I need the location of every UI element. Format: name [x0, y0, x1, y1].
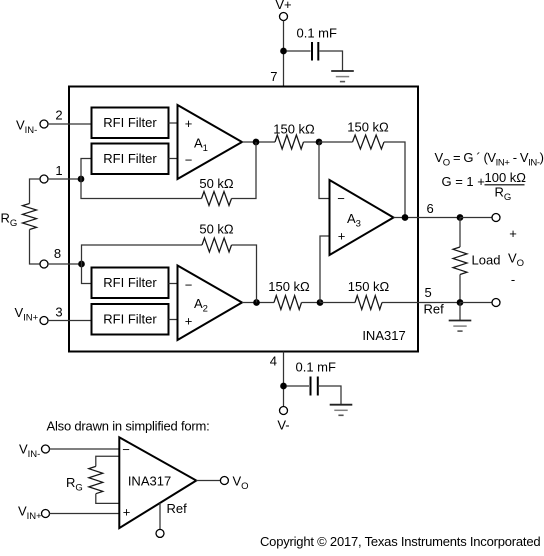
- input terminal VIN+ pin 3: [15, 305, 49, 325]
- wire pin 4: [283, 352, 285, 407]
- terminal pin 1: [40, 175, 48, 183]
- svg-text:V-: V-: [277, 418, 289, 433]
- ref terminal simplified: [156, 529, 164, 537]
- svg-text:4: 4: [270, 354, 277, 369]
- output terminal VO simplified: [220, 474, 248, 493]
- load resistor: [453, 218, 500, 303]
- wire node to R2: [82, 245, 203, 264]
- wire node to R1: [81, 179, 202, 199]
- svg-text:2: 2: [55, 108, 62, 123]
- svg-text:Also drawn in simplified form:: Also drawn in simplified form:: [47, 419, 210, 434]
- ground at C2: [330, 405, 353, 416]
- wire pin5 node to VO- terminal: [460, 302, 492, 304]
- wire output simplified: [196, 480, 220, 482]
- node V- bypass junction: [280, 383, 287, 390]
- svg-text:Load: Load: [472, 253, 501, 268]
- wire pin 1 to node: [48, 178, 81, 180]
- svg-text:5: 5: [425, 285, 432, 300]
- wire V+ to pin 7: [283, 21, 285, 87]
- svg-text:+: +: [185, 116, 193, 131]
- wire V+ junction to C1: [287, 50, 311, 52]
- RFI filter F4: [92, 304, 169, 335]
- svg-text:−: −: [185, 153, 193, 168]
- wire R3 to node: [304, 141, 320, 143]
- svg-text:1: 1: [55, 163, 62, 178]
- wire pin 3 to RFI filter F4: [48, 320, 91, 322]
- svg-text:−: −: [122, 442, 130, 457]
- capacitor C1 0.1 mF: [297, 26, 338, 61]
- wire node to A3 noninverting input: [320, 236, 330, 303]
- IC boundary INA317: [69, 87, 418, 352]
- wire node to RFI filter F2: [81, 159, 91, 180]
- node A2 output: [253, 299, 260, 306]
- wire node to RFI filter F3: [82, 264, 92, 284]
- node pin1/RG/A1 feedback: [78, 176, 85, 183]
- svg-text:−: −: [185, 278, 193, 293]
- svg-text:7: 7: [270, 69, 277, 84]
- node A3 output: [402, 214, 409, 221]
- node A3 noninverting input net: [317, 299, 324, 306]
- wire R4 to A3 output: [384, 142, 405, 218]
- resistor R3 150 kOhm: [273, 122, 315, 150]
- svg-text:Ref: Ref: [167, 501, 188, 516]
- wire F2 to A1 inverting input: [169, 158, 178, 160]
- svg-text:V+: V+: [275, 0, 291, 12]
- ground at C1: [331, 71, 354, 82]
- svg-text:+: +: [185, 314, 193, 329]
- svg-text:Copyright © 2017, Texas Instru: Copyright © 2017, Texas Instruments Inco…: [260, 534, 540, 549]
- svg-text:G = 1 +: G = 1 +: [442, 174, 485, 189]
- node output pin 6: [457, 214, 464, 221]
- wire F3 to A2 inverting input: [169, 283, 178, 285]
- amplifier INA317 simplified: [119, 437, 196, 528]
- wire A2 output: [242, 302, 274, 304]
- RFI filter F3: [92, 268, 169, 299]
- svg-text:+: +: [509, 226, 517, 241]
- svg-text:+: +: [123, 505, 131, 520]
- svg-text:50 kΩ: 50 kΩ: [199, 222, 234, 237]
- svg-text:8: 8: [54, 246, 61, 261]
- wire pin 8 to node: [48, 263, 82, 265]
- power terminal V-: [277, 407, 289, 433]
- svg-text:100 kΩ: 100 kΩ: [485, 170, 527, 185]
- wire F4 to A2 noninverting input: [169, 319, 178, 321]
- wire pin6 node to VO+ terminal: [460, 217, 492, 219]
- svg-text:RFI Filter: RFI Filter: [103, 151, 157, 166]
- wire A1 feedback to R1: [232, 142, 257, 199]
- op-amp A2: [178, 266, 243, 341]
- resistor R1 50 kOhm: [199, 176, 234, 206]
- RFI filter F2: [92, 144, 169, 175]
- svg-text:0.1 mF: 0.1 mF: [297, 26, 338, 41]
- svg-text:6: 6: [427, 201, 434, 216]
- svg-text:+: +: [338, 229, 346, 244]
- resistor R5 150 kOhm: [268, 279, 310, 310]
- wire A1 output: [242, 141, 275, 143]
- input terminal VIN+ simplified: [18, 504, 50, 523]
- wire node to A3 inverting input: [319, 142, 330, 199]
- svg-text:50 kΩ: 50 kΩ: [199, 176, 234, 191]
- wire F1 to A1 noninverting input: [169, 122, 178, 124]
- output terminal VO+: [492, 214, 500, 222]
- wire node to R6: [320, 302, 355, 304]
- node output pin 5: [457, 299, 464, 306]
- svg-text:150 kΩ: 150 kΩ: [347, 120, 389, 135]
- equation gain: [442, 170, 527, 203]
- wire R5 to node: [302, 302, 321, 304]
- wire C2 to ground: [319, 386, 341, 404]
- svg-text:0.1 mF: 0.1 mF: [296, 360, 337, 375]
- svg-text:150 kΩ: 150 kΩ: [273, 122, 315, 137]
- svg-text:RFI Filter: RFI Filter: [103, 275, 157, 290]
- input terminal VIN- simplified: [19, 442, 50, 461]
- wire C1 to ground: [320, 51, 343, 71]
- svg-text:INA317: INA317: [128, 474, 171, 489]
- svg-text:150 kΩ: 150 kΩ: [348, 279, 390, 294]
- resistor R4 150 kOhm feedback: [347, 120, 389, 150]
- RFI filter F1: [92, 108, 169, 139]
- wire pin 2 to RFI filter F1: [48, 123, 91, 125]
- node A3 inverting input net: [316, 139, 323, 146]
- wire VIN- to amp: [49, 448, 119, 450]
- op-amp A3: [330, 180, 394, 255]
- output terminal VO-: [492, 299, 500, 307]
- svg-text:3: 3: [55, 305, 62, 320]
- wire R6 to pin 5: [382, 302, 460, 304]
- node V+ bypass junction: [280, 48, 287, 55]
- gain resistor RG: [1, 179, 41, 264]
- svg-text:RFI Filter: RFI Filter: [103, 312, 157, 327]
- input terminal VIN- pin 2: [16, 118, 48, 137]
- op-amp A1: [178, 105, 243, 179]
- svg-text:−: −: [337, 191, 345, 206]
- wire A3 output to pin 6: [394, 217, 461, 219]
- gain resistor RG simplified: [66, 456, 119, 503]
- resistor R6 150 kOhm ref: [348, 279, 390, 310]
- svg-text:INA317: INA317: [362, 328, 405, 343]
- ground at output: [449, 321, 472, 332]
- svg-text:150 kΩ: 150 kΩ: [268, 279, 310, 294]
- svg-text:-: -: [511, 272, 515, 287]
- resistor R2 50 kOhm: [199, 222, 234, 253]
- power terminal V+: [275, 0, 291, 21]
- wire node to R4: [319, 141, 353, 143]
- node A1 output: [253, 139, 260, 146]
- svg-text:Ref: Ref: [424, 302, 445, 317]
- ref wire simplified: [159, 503, 161, 530]
- wire pin5 node to ground: [459, 303, 461, 321]
- terminal pin 8: [40, 260, 48, 268]
- node pin8/RG/A2 feedback: [78, 261, 85, 268]
- wire VIN+ to amp: [49, 513, 119, 515]
- capacitor C2 0.1 mF: [296, 360, 337, 396]
- wire junction to C2: [287, 385, 310, 387]
- wire A2 feedback to R2: [232, 245, 257, 303]
- svg-text:RFI Filter: RFI Filter: [103, 115, 157, 130]
